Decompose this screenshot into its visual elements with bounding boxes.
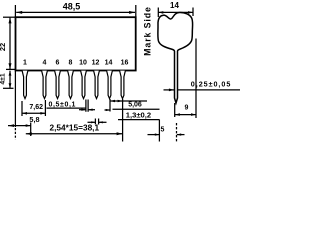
pin 6	[55, 71, 61, 99]
extension lines pin10 width	[85, 100, 87, 112]
dimension line 14	[158, 11, 193, 14]
leader 0,5±0,1	[47, 107, 87, 109]
pin 8	[68, 71, 74, 99]
svg-text:12: 12	[92, 60, 100, 67]
extension line left for 5	[158, 120, 160, 142]
svg-text:14: 14	[170, 1, 179, 10]
extension from stem for 9	[174, 103, 176, 117]
extension line pin14 for 5,06	[109, 99, 111, 112]
extension line bottom for 4±1	[3, 87, 14, 89]
package body front view	[16, 17, 136, 70]
svg-text:9: 9	[184, 104, 188, 111]
dimension line 2,54*15=38,1	[26, 132, 123, 135]
svg-text:0,5±0,1: 0,5±0,1	[49, 102, 77, 109]
svg-text:6: 6	[56, 60, 60, 67]
extension line left of 48,5	[14, 5, 16, 17]
svg-text:5,8: 5,8	[29, 115, 39, 124]
svg-text:48,5: 48,5	[63, 2, 81, 12]
dashed extension from stem	[176, 123, 178, 142]
dimension line 48,5	[16, 11, 135, 14]
pin 16	[120, 71, 126, 99]
svg-text:22: 22	[0, 43, 7, 51]
extension line right for 9	[195, 39, 197, 119]
svg-text:5,06: 5,06	[128, 102, 142, 109]
svg-text:2,54*15=38,1: 2,54*15=38,1	[50, 123, 100, 133]
extension line pin16 center down	[122, 99, 124, 142]
dimension line 5,06	[110, 100, 147, 103]
extension line bottom for 22	[6, 68, 16, 70]
extension line right of 48,5	[135, 5, 137, 17]
extension line right for 5,8	[30, 123, 32, 137]
extension lines for 7,62	[21, 101, 23, 116]
svg-text:1: 1	[23, 60, 27, 67]
pin 1	[22, 71, 28, 99]
svg-text:14: 14	[105, 60, 113, 67]
dimension line 5,8	[8, 124, 31, 127]
extension line body left edge down	[14, 71, 16, 127]
svg-text:8: 8	[69, 60, 73, 67]
arrows 0,5±0,1	[79, 109, 95, 111]
svg-text:1,3±0,2: 1,3±0,2	[126, 111, 151, 120]
side view body outline with lead	[158, 12, 193, 103]
dimension line 5	[148, 133, 185, 135]
svg-text:5: 5	[161, 126, 165, 133]
svg-text:0,25±0,05: 0,25±0,05	[191, 79, 231, 88]
extension lines for 14	[157, 8, 159, 18]
extension lines pin16 taper width for 1,3±0,2	[94, 119, 96, 125]
leader 0,25±0,05	[164, 89, 241, 92]
dimension line 22	[9, 17, 12, 69]
arrows 1,3±0,2	[88, 121, 107, 123]
leader 1,3±0,2	[113, 108, 160, 110]
extension line top for 22	[3, 16, 16, 18]
pin 10	[81, 71, 87, 99]
svg-text:Mark Side: Mark Side	[142, 6, 152, 56]
svg-text:16: 16	[121, 60, 129, 67]
dimension line 4±1	[9, 71, 12, 89]
pin 12	[94, 71, 100, 99]
svg-text:4: 4	[43, 60, 47, 67]
pin 4	[42, 71, 48, 99]
dimension line 7,62	[22, 112, 45, 115]
pin 14	[107, 71, 113, 99]
svg-text:10: 10	[79, 60, 87, 67]
svg-text:7,62: 7,62	[29, 104, 43, 111]
svg-text:4±1: 4±1	[0, 73, 7, 85]
dimension line 9	[175, 113, 196, 116]
